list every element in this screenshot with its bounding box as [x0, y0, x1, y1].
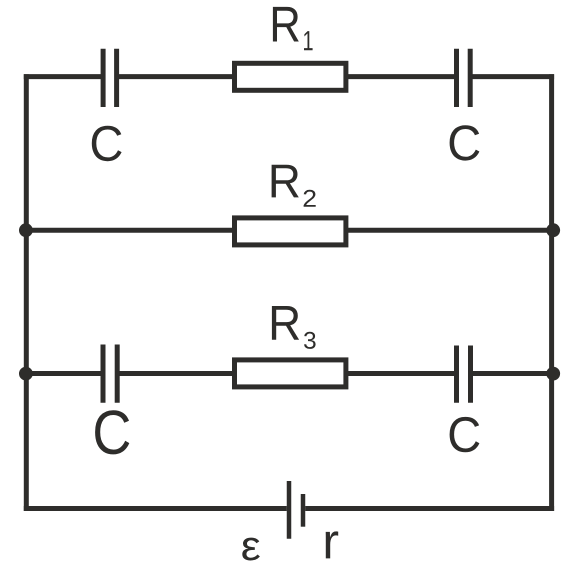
node right junction (middle branch)	[546, 223, 560, 237]
label epsilon (emf)	[242, 538, 260, 561]
wire bottom left segment	[24, 506, 287, 511]
label C top-left	[92, 126, 122, 162]
wire third branch middle segment	[119, 371, 234, 376]
label C bottom-left	[95, 410, 129, 454]
wire top branch middle segment	[119, 74, 234, 79]
wire bottom right segment	[305, 506, 554, 511]
label R1	[273, 7, 299, 42]
label R2 subscript 2	[304, 190, 316, 207]
label R3 subscript 3	[304, 332, 316, 349]
wire middle branch left segment	[26, 228, 234, 233]
wire third branch rightmost segment	[473, 371, 552, 376]
battery short plate	[301, 494, 306, 527]
label r (internal resistance)	[326, 531, 339, 558]
wire right rail	[549, 74, 554, 511]
label C top-right	[450, 125, 480, 160]
node left junction (middle branch)	[19, 223, 33, 237]
label C bottom-right	[450, 417, 480, 452]
capacitor C top-right plate A	[454, 49, 459, 107]
label R1 subscript 1	[304, 31, 313, 50]
label R2	[272, 165, 299, 198]
node left junction (third branch)	[19, 367, 33, 381]
capacitor C top-left plate A	[101, 49, 106, 107]
label R3	[272, 306, 299, 340]
wire third branch left segment	[26, 371, 101, 376]
wire top branch left segment	[24, 74, 101, 79]
capacitor C top-left plate B	[114, 49, 119, 107]
wire top branch rightmost segment	[472, 74, 554, 79]
wire left rail	[24, 74, 29, 511]
capacitor C bottom-right plate A	[454, 346, 459, 403]
battery long plate (emf)	[287, 481, 292, 539]
node right junction (third branch)	[546, 367, 560, 381]
wire third branch right-of-resistor segment	[346, 371, 454, 376]
resistor R2 body	[235, 218, 346, 245]
capacitor C bottom-left plate B	[115, 345, 120, 403]
resistor R3 body	[235, 360, 346, 387]
capacitor C bottom-right plate B	[468, 346, 473, 403]
wire top branch right-of-resistor segment	[346, 74, 454, 79]
wire middle branch right segment	[346, 228, 552, 233]
capacitor C bottom-left plate A	[101, 345, 106, 403]
capacitor C top-right plate B	[468, 49, 473, 107]
resistor R1 body	[235, 63, 346, 90]
